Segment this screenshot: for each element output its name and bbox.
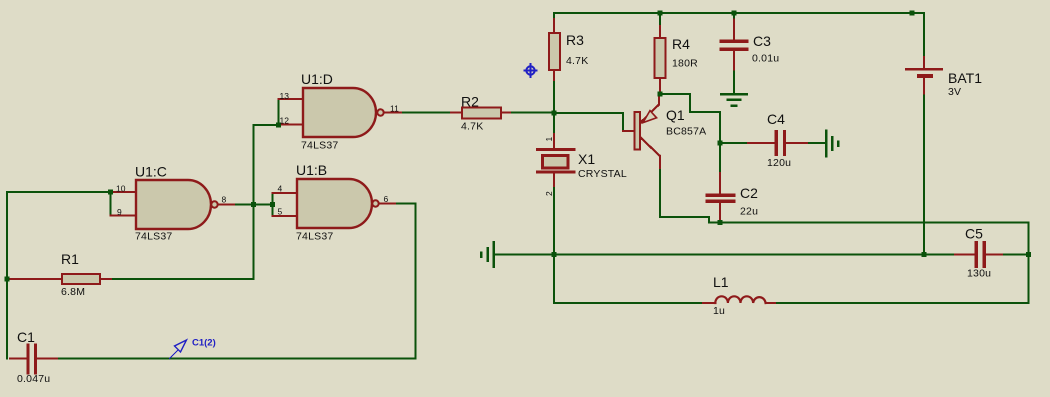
- svg-text:4: 4: [278, 183, 283, 193]
- wire U1:D input horizontal y=125: [254, 124, 279, 126]
- battery BAT1 top lead: [923, 57, 925, 68]
- svg-text:U1:C: U1:C: [135, 164, 167, 180]
- NAND gate U1:C body: [136, 180, 211, 229]
- svg-text:10: 10: [116, 184, 126, 194]
- resistor R1 body: [62, 274, 100, 284]
- wire base y=113: [554, 113, 623, 131]
- svg-text:1: 1: [544, 137, 554, 142]
- svg-text:3V: 3V: [948, 86, 961, 98]
- wire top rail y=13: [554, 12, 924, 14]
- resistor R2 body: [462, 108, 501, 119]
- node R1 left junction: [5, 277, 10, 282]
- crystal X1 bottom plate: [538, 171, 575, 174]
- svg-text:L1: L1: [713, 274, 729, 290]
- svg-text:74LS37: 74LS37: [296, 231, 333, 243]
- svg-text:2: 2: [544, 191, 554, 196]
- wire R1 to feedback vertical: [113, 278, 254, 280]
- net label arrow blue: [169, 340, 187, 359]
- wire C2 junction to right edge: [720, 223, 1029, 255]
- svg-text:C5: C5: [965, 226, 983, 242]
- svg-text:R3: R3: [566, 32, 584, 48]
- U1:C output bubble: [211, 201, 217, 207]
- svg-text:8: 8: [222, 194, 227, 204]
- U1:C output pin 8 stub: [218, 204, 236, 206]
- node C4 junction: [718, 141, 723, 146]
- pin 4 stub: [273, 192, 298, 194]
- wire U1:D pin13 tie vertical: [278, 99, 280, 125]
- crystal X1 pin 1: [553, 134, 555, 148]
- wire ground rail y=254.5: [495, 254, 955, 256]
- U1:D output pin 11 stub: [384, 112, 403, 114]
- capacitor C3 top lead wire: [733, 13, 735, 20]
- node U1:C input junction: [108, 190, 113, 195]
- wire C5 to junction: [1004, 254, 1029, 256]
- wire C4 node to C4: [720, 142, 748, 144]
- capacitor C2 leads: [719, 173, 721, 194]
- wire R3 bottom to node: [553, 82, 555, 113]
- svg-text:74LS37: 74LS37: [135, 231, 172, 243]
- svg-text:C1: C1: [17, 329, 35, 345]
- svg-text:C2: C2: [740, 185, 758, 201]
- wire node down to crystal: [553, 113, 555, 134]
- wire ground rail down to L1: [554, 255, 703, 304]
- capacitor C4 plates: [775, 132, 778, 155]
- transistor Q1 body bar: [635, 112, 641, 150]
- pin 13 stub: [279, 98, 304, 100]
- wire C4 node down to C2: [719, 143, 721, 173]
- svg-text:U1:D: U1:D: [301, 71, 333, 87]
- pin 9 stub: [111, 215, 137, 217]
- capacitor C2 plates: [707, 194, 734, 197]
- wire bottom y=358.5 to C1: [57, 358, 416, 360]
- svg-text:22u: 22u: [740, 206, 758, 218]
- resistor R3 leads: [553, 19, 555, 33]
- svg-text:U1:B: U1:B: [296, 162, 327, 178]
- svg-text:4.7K: 4.7K: [461, 121, 483, 133]
- U1:D output bubble: [377, 109, 383, 115]
- wire C3 to ground: [733, 72, 735, 94]
- node U1:B input tie junction: [270, 202, 275, 207]
- crystal X1 body: [543, 156, 569, 169]
- svg-text:6: 6: [384, 194, 389, 204]
- wire BAT1 to ground rail: [923, 96, 925, 255]
- svg-text:5: 5: [278, 206, 283, 216]
- wire C4 to right ground: [809, 142, 825, 144]
- wire emitter staircase to C4 node: [660, 94, 720, 143]
- pin 10 stub: [111, 191, 137, 193]
- svg-text:130u: 130u: [967, 268, 991, 280]
- transistor Q1 emitter arrow: [643, 111, 657, 123]
- svg-text:Q1: Q1: [666, 107, 685, 123]
- wire R3 top drop: [553, 13, 555, 19]
- svg-text:13: 13: [280, 91, 290, 101]
- svg-text:BAT1: BAT1: [948, 70, 982, 86]
- U1:B output pin 6 stub: [379, 203, 397, 205]
- capacitor C4 leads: [748, 142, 774, 144]
- wire left vertical x=7: [6, 192, 8, 359]
- capacitor C3 leads: [733, 20, 735, 40]
- transistor Q1 emitter diagonal: [641, 94, 659, 122]
- node crossing junction x=253.5: [251, 202, 256, 207]
- inductor L1 leads: [703, 302, 715, 304]
- capacitor C3 plates: [721, 40, 747, 43]
- node C2 bottom junction: [718, 220, 723, 225]
- wire U1:B input tie vertical: [272, 193, 274, 216]
- node crystal ground junction: [552, 252, 557, 257]
- node BAT1 bottom junction: [922, 252, 927, 257]
- node emitter/R4 junction: [658, 92, 663, 97]
- battery BAT1 long plate: [906, 68, 942, 70]
- capacitor C5 leads: [955, 254, 975, 256]
- svg-text:11: 11: [390, 103, 399, 113]
- resistor R4 leads: [659, 26, 661, 38]
- svg-text:CRYSTAL: CRYSTAL: [578, 168, 627, 180]
- U1:B output bubble: [372, 200, 378, 206]
- capacitor C1 plates: [26, 345, 29, 373]
- pin 5 stub: [273, 215, 298, 217]
- battery BAT1 short plate: [919, 74, 931, 78]
- ground below C3: [721, 93, 747, 95]
- wire collector down and right: [660, 170, 720, 223]
- node R4 top rail junction: [658, 11, 663, 16]
- wire feedback vertical x=253.5: [253, 125, 255, 279]
- svg-text:BC857A: BC857A: [666, 126, 706, 138]
- wire U1:C pin10 horizontal: [7, 191, 111, 193]
- wire crystal to ground rail: [553, 188, 555, 255]
- node C3 top rail junction: [732, 11, 737, 16]
- resistor R4 top lead wire: [659, 13, 661, 26]
- NAND gate U1:D body: [303, 88, 376, 137]
- capacitor C1 leads: [10, 358, 26, 360]
- svg-text:0.01u: 0.01u: [752, 53, 779, 65]
- crystal X1 pin 2: [553, 174, 555, 189]
- svg-text:R1: R1: [61, 251, 79, 267]
- svg-text:C1(2): C1(2): [192, 338, 216, 349]
- node C5 right junction: [1026, 252, 1031, 257]
- wire U1:C output to U1:B inputs: [236, 204, 273, 206]
- wire U1:B output right and down: [397, 204, 416, 359]
- origin marker (blue crosshair): [524, 63, 538, 78]
- crystal X1 top plate: [538, 148, 575, 151]
- NAND gate U1:B body: [297, 179, 372, 228]
- svg-text:R4: R4: [672, 36, 690, 52]
- battery BAT1 bottom lead: [923, 78, 925, 96]
- resistor R3 body: [549, 33, 560, 70]
- wire U1:D output to R2: [403, 112, 451, 114]
- svg-text:4.7K: 4.7K: [566, 55, 588, 67]
- node U1:D input junction: [276, 123, 281, 128]
- svg-text:C4: C4: [767, 111, 785, 127]
- svg-text:1u: 1u: [713, 305, 725, 317]
- transistor Q1 collector diagonal: [641, 138, 660, 170]
- resistor R2 leads: [451, 112, 462, 114]
- svg-text:6.8M: 6.8M: [61, 286, 85, 298]
- svg-text:9: 9: [117, 207, 122, 217]
- resistor R1 leads: [7, 278, 62, 280]
- svg-text:X1: X1: [578, 151, 595, 167]
- wire top rail corner down to BAT1: [923, 13, 925, 57]
- svg-text:180R: 180R: [672, 58, 698, 70]
- svg-text:120u: 120u: [767, 157, 791, 169]
- svg-text:R2: R2: [461, 94, 479, 110]
- wire L1 to right edge up: [777, 255, 1029, 304]
- ground right of C4: [825, 131, 827, 157]
- capacitor C5 plates: [975, 243, 978, 267]
- svg-text:C3: C3: [753, 33, 771, 49]
- resistor R4 body: [655, 38, 666, 78]
- svg-text:0.047u: 0.047u: [17, 373, 50, 385]
- inductor L1 coil: [715, 296, 765, 303]
- wire R2 to node: [512, 112, 554, 114]
- wire U1:C pin9 tie vertical: [110, 192, 112, 216]
- svg-text:74LS37: 74LS37: [301, 140, 338, 152]
- ground left of ground rail: [493, 242, 495, 267]
- node R2/R3/X1 junction: [552, 111, 557, 116]
- node top rail dot near corner: [910, 11, 915, 16]
- pin 12 stub: [279, 124, 304, 126]
- svg-text:12: 12: [280, 116, 290, 126]
- transistor Q1 base pin: [623, 130, 635, 132]
